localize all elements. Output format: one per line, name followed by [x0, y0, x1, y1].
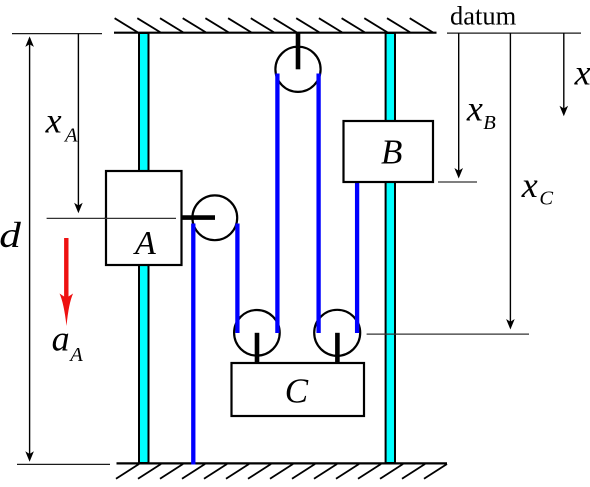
- rod: bottom-left pulley to block C: [255, 333, 260, 364]
- rod: block A to its pulley: [181, 215, 215, 220]
- xB tick line: [438, 181, 477, 183]
- rope: pulley-A right side down to bottom-left pulley: [235, 224, 239, 334]
- svg-text:x: x: [574, 53, 590, 93]
- pulley bottom-right (on block C): [314, 310, 360, 356]
- svg-text:B: B: [483, 112, 496, 134]
- svg-text:x: x: [521, 165, 538, 205]
- pulley top (fixed to ceiling): [275, 47, 320, 92]
- floor hatching: [116, 464, 447, 479]
- left guide column (cyan): [139, 33, 149, 463]
- svg-text:A: A: [133, 225, 156, 262]
- svg-text:C: C: [539, 187, 553, 209]
- svg-text:a: a: [52, 319, 70, 359]
- xA tick line: [47, 217, 176, 219]
- dimension arrow d (double headed): [25, 36, 34, 461]
- floor line: [117, 462, 448, 464]
- xC tick line: [367, 333, 529, 335]
- datum extension line (top left): [12, 33, 102, 35]
- svg-text:C: C: [285, 371, 309, 410]
- acceleration arrow aA (red): [60, 238, 74, 326]
- dimension arrow xC: [506, 33, 515, 329]
- svg-text:B: B: [381, 132, 402, 171]
- ceiling hatching: [115, 18, 433, 32]
- rope: top pulley right side down to bottom-right pulley: [316, 74, 320, 334]
- svg-text:d: d: [0, 215, 21, 255]
- svg-text:datum: datum: [450, 1, 517, 31]
- svg-text:A: A: [68, 344, 83, 366]
- floor extension line (bottom left): [17, 463, 110, 465]
- rope: block B bottom down to bottom-right pulley: [355, 182, 359, 333]
- dimension arrow xB: [454, 33, 463, 178]
- block B: [344, 121, 434, 182]
- right guide column (cyan): [386, 33, 395, 463]
- rod: bottom-right pulley to block C: [335, 333, 340, 364]
- svg-text:x: x: [466, 88, 483, 128]
- pulley bottom-left (on block C): [234, 310, 280, 356]
- rope: top pulley left side down to bottom-left pulley: [275, 74, 279, 334]
- block C: [232, 363, 365, 416]
- dimension arrow x: [560, 33, 569, 116]
- svg-text:A: A: [63, 125, 78, 147]
- rope: pulley-A left side down to floor: [191, 224, 195, 465]
- datum line (right): [447, 32, 581, 34]
- ceiling line: [114, 32, 437, 34]
- block A: [106, 171, 182, 265]
- pulley on block A: [192, 195, 237, 240]
- rod: ceiling to top pulley: [296, 33, 301, 69]
- svg-text:x: x: [45, 100, 62, 140]
- xA tick line segment over block A: [104, 217, 176, 219]
- dimension arrow xA: [74, 34, 83, 214]
